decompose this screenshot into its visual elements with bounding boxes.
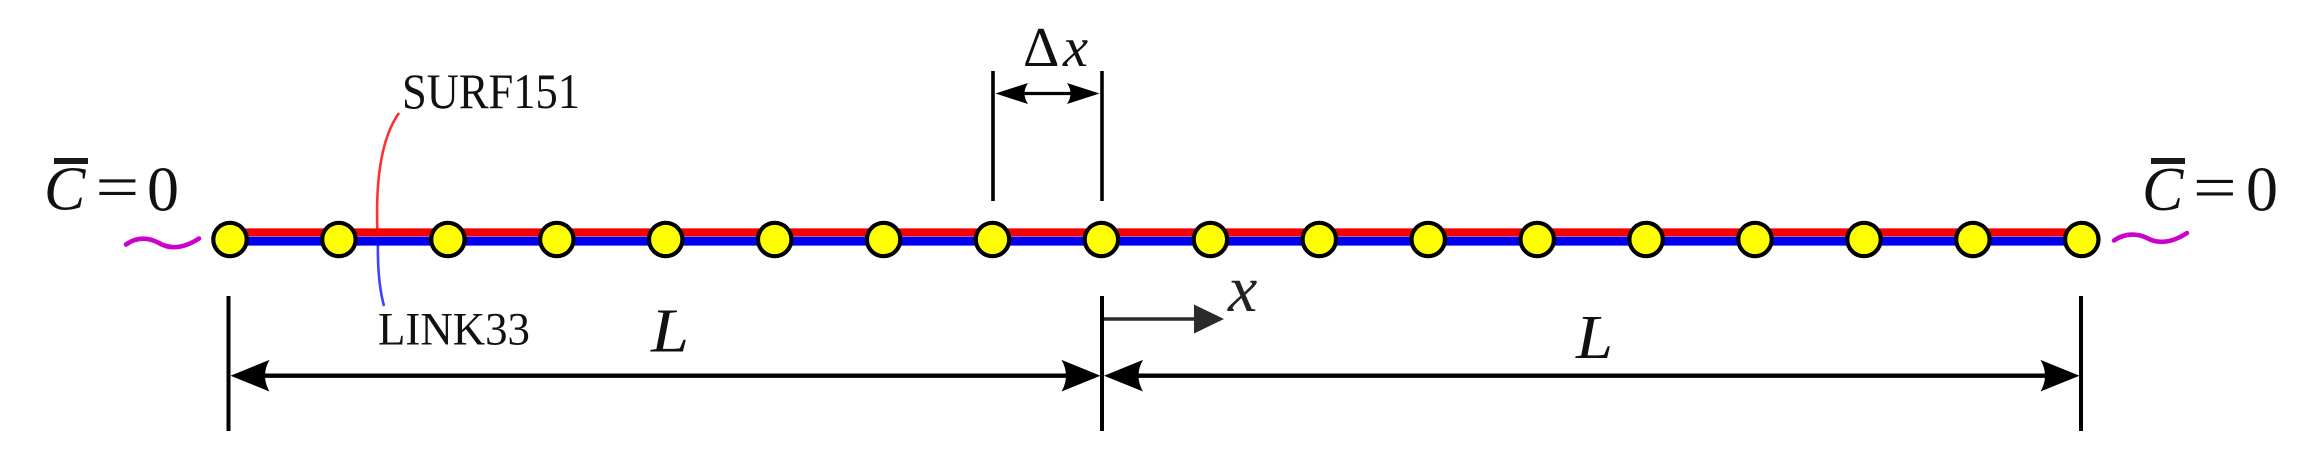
svg-text:SURF151: SURF151 [402, 64, 580, 119]
node 3 [431, 223, 464, 256]
LINK33 leader line (blue) [378, 240, 384, 306]
node 12 [1412, 223, 1445, 256]
right span dimension line [1136, 374, 2048, 378]
node 7 [867, 223, 900, 256]
dimension tick left [227, 296, 231, 431]
svg-text:Δ: Δ [1023, 17, 1059, 79]
node 18 [2065, 223, 2098, 256]
node 11 [1303, 223, 1336, 256]
delta-x left arrowhead [996, 83, 1029, 104]
svg-text:x: x [1227, 253, 1257, 326]
node 2 [322, 223, 355, 256]
boundary squiggle right (magenta) [2114, 233, 2187, 242]
boundary squiggle left (magenta) [126, 239, 199, 248]
node 1 [213, 223, 246, 256]
node 14 [1629, 223, 1662, 256]
dimension tick right [2079, 296, 2083, 431]
node 8 [976, 223, 1009, 256]
node 15 [1738, 223, 1771, 256]
svg-text:=: = [96, 153, 140, 222]
x axis arrowhead [1194, 305, 1224, 334]
SURF151 element line (red) [231, 228, 2081, 236]
svg-text:x: x [1062, 17, 1088, 79]
left span right arrowhead [1062, 360, 1101, 392]
node 17 [1956, 223, 1989, 256]
right span left arrowhead [1104, 360, 1143, 392]
LINK33 element line (blue) [231, 237, 2081, 246]
svg-text:L: L [1575, 302, 1613, 372]
delta-x right arrowhead [1067, 83, 1100, 104]
node 4 [540, 223, 573, 256]
svg-text:C: C [44, 156, 86, 224]
svg-text:0: 0 [147, 154, 179, 225]
left span dimension line [262, 374, 1070, 378]
svg-text:=: = [2193, 154, 2237, 223]
svg-text:0: 0 [2246, 154, 2278, 225]
node 9 [1085, 223, 1118, 256]
boundary condition label left: C-bar = 0 [44, 153, 179, 224]
svg-text:C: C [2142, 156, 2184, 224]
node 5 [649, 223, 682, 256]
right span right arrowhead [2041, 360, 2080, 392]
delta-x right extension tick [1100, 71, 1104, 201]
left span left arrowhead [231, 360, 270, 392]
node 6 [758, 223, 791, 256]
SURF151 leader line (red) [377, 113, 399, 233]
svg-text:L: L [650, 296, 689, 366]
dimension tick center [1100, 296, 1104, 431]
node 16 [1847, 223, 1880, 256]
node 10 [1194, 223, 1227, 256]
boundary condition label right: C-bar = 0 [2142, 154, 2278, 225]
svg-text:LINK33: LINK33 [378, 305, 530, 356]
node 13 [1521, 223, 1554, 256]
x axis line [1104, 317, 1203, 320]
delta-x left extension tick [991, 71, 995, 201]
delta-x dimension line [1010, 92, 1085, 95]
